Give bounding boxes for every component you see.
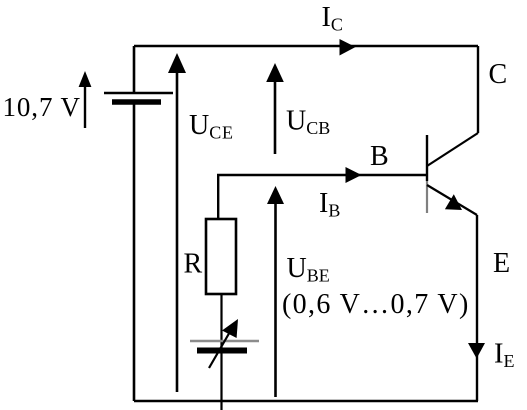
resistor R — [206, 219, 236, 294]
arrow U_CB — [274, 80, 277, 154]
wire resistor to source — [220, 294, 222, 410]
arrow U_BE — [274, 202, 277, 397]
transistor Q1 emitter diagonal — [427, 185, 477, 215]
battery V1 thick plate — [112, 99, 161, 105]
arrow U_CE — [176, 71, 179, 392]
svg-text:C: C — [489, 59, 508, 90]
svg-text:E: E — [493, 248, 510, 279]
arrow 10,7 V — [84, 85, 86, 128]
wire left vertical upper — [133, 46, 136, 93]
wire top (collector supply) — [134, 45, 478, 48]
arrowhead I_C — [340, 39, 356, 56]
wire base corner down to resistor — [217, 174, 219, 219]
wire right collector vertical — [477, 46, 479, 133]
transistor Q1 emitter arrowhead — [445, 194, 462, 210]
svg-text:10,7 V: 10,7 V — [3, 92, 81, 122]
wire emitter vertical — [476, 215, 478, 401]
transistor Q1 collector diagonal — [427, 133, 478, 166]
battery V1 thin plate — [104, 92, 173, 94]
arrowhead I_E — [468, 343, 485, 359]
wire left vertical lower — [133, 105, 136, 402]
source V2 thin plate (gray) — [190, 340, 259, 343]
svg-text:R: R — [184, 249, 203, 280]
wire bottom — [134, 400, 478, 403]
svg-text:(0,6 V…0,7 V): (0,6 V…0,7 V) — [282, 289, 470, 320]
wire base horizontal — [217, 174, 427, 176]
arrowhead I_B — [346, 167, 362, 183]
source V2 variable arrow — [209, 330, 231, 368]
source V2 thick plate — [197, 348, 247, 354]
transistor Q1 base bar — [426, 135, 428, 181]
svg-text:B: B — [370, 141, 389, 172]
